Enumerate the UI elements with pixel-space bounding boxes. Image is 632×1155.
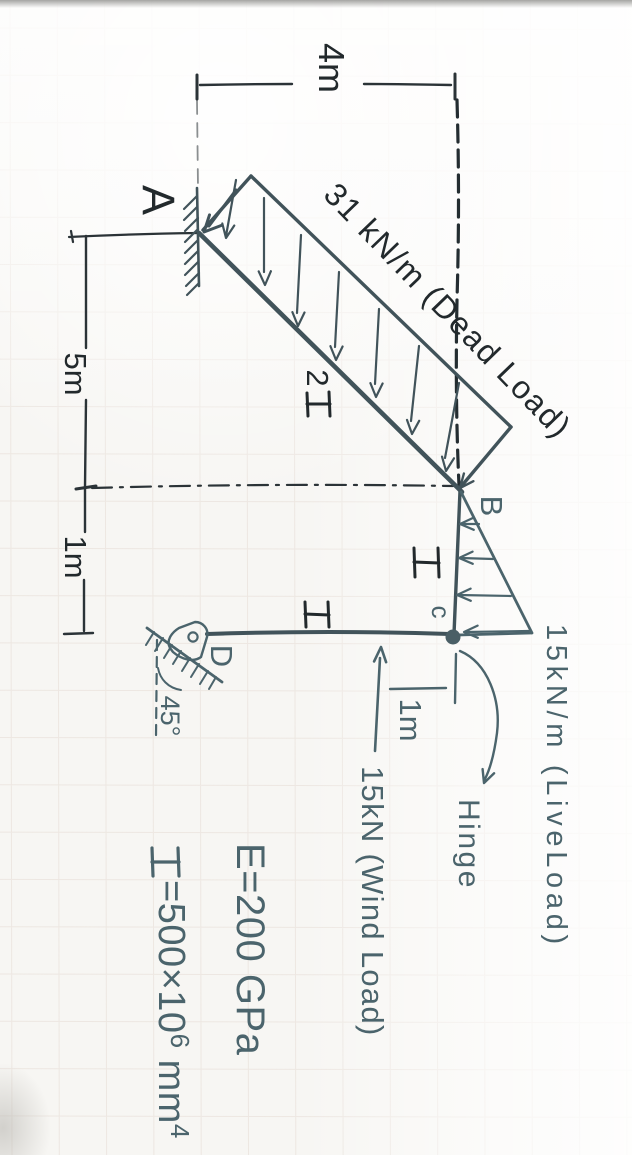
faint extension line above A — [197, 100, 198, 188]
roller support pin body at D — [169, 622, 208, 660]
triangular live load hypotenuse — [461, 492, 532, 633]
vertical dimension line 1m lower segment — [83, 580, 85, 631]
svg-text:5m: 5m — [58, 352, 93, 395]
svg-text:D: D — [204, 645, 239, 667]
wind load arrow — [374, 647, 386, 751]
vertical dimension line 1m upper segment — [84, 489, 86, 532]
svg-text:15kN/m (LiveLoad): 15kN/m (LiveLoad) — [540, 624, 572, 949]
photo edge top — [0, 0, 632, 8]
svg-text:A: A — [133, 185, 184, 215]
vertical dimension line 5m upper segment — [85, 236, 87, 348]
member AB (2I) — [199, 233, 462, 492]
load post 2 — [259, 198, 271, 285]
load band cap at B end — [459, 427, 511, 489]
dashed vertical reference at D — [156, 640, 157, 737]
svg-text:c: c — [426, 606, 456, 619]
load post 5 — [370, 309, 382, 397]
load post 4 — [330, 272, 342, 360]
svg-text:1m: 1m — [393, 698, 428, 741]
pin circle at D — [188, 632, 197, 641]
distributed load band outer edge — [251, 176, 511, 427]
live load arrow 1 — [460, 518, 479, 530]
dimension 4m line left segment — [200, 84, 292, 85]
label I = 500e6 mm4 — [152, 848, 179, 876]
horizontal extension line at A level — [69, 231, 198, 242]
load band cap at A end — [203, 176, 251, 230]
photo edge corner blotches — [0, 1063, 51, 1155]
svg-text:45°: 45° — [155, 696, 185, 737]
roller support surface at D — [147, 628, 222, 682]
dimension 4m right tick — [454, 74, 457, 99]
tick between 5m and 1m — [76, 486, 96, 489]
svg-text:15kN (Wind Load): 15kN (Wind Load) — [355, 766, 390, 1037]
svg-text:2: 2 — [300, 369, 335, 386]
label I on CD — [305, 602, 329, 627]
bottom tick of 1m dimension — [64, 633, 93, 634]
svg-text:B: B — [474, 496, 509, 517]
support hatching wall at A — [197, 188, 199, 286]
load post 6 — [407, 346, 419, 434]
svg-text:=500×106 mm4: =500×106 mm4 — [150, 880, 195, 1139]
dimension 4m left tick — [196, 75, 199, 99]
live load arrow 3 — [457, 589, 511, 601]
load post 7 — [442, 383, 459, 471]
dashed extension line from 4m to B — [456, 100, 459, 485]
hinge pointer curved arrow — [460, 651, 498, 783]
hinge dot at C — [446, 630, 461, 645]
dimension 4m line right segment — [364, 84, 451, 85]
45 degree arc at D — [158, 668, 181, 690]
extension line below hinge — [455, 654, 456, 703]
label I on BC — [414, 548, 439, 577]
svg-text:Hinge: Hinge — [452, 799, 485, 890]
load arrow at A — [204, 190, 236, 232]
member BC (I) — [454, 491, 460, 634]
white wash upper area — [0, 0, 632, 700]
load arrow at B — [460, 474, 473, 489]
1m dimension line near wind load — [390, 688, 446, 689]
roller support hatching at D — [146, 632, 216, 689]
live load arrow 4 — [464, 626, 529, 638]
live load arrow 2 — [459, 552, 493, 564]
load post 1 — [222, 180, 236, 238]
load post 3 — [292, 235, 304, 326]
svg-text:E=200 GPa: E=200 GPa — [228, 843, 272, 1056]
member CD (I) — [207, 632, 450, 634]
triangular live load base — [458, 633, 531, 635]
svg-text:4m: 4m — [311, 43, 352, 93]
vertical dimension line 5m lower segment — [85, 400, 86, 487]
dash-dot centre line from dimension to B — [92, 485, 453, 488]
svg-text:1m: 1m — [58, 535, 93, 578]
